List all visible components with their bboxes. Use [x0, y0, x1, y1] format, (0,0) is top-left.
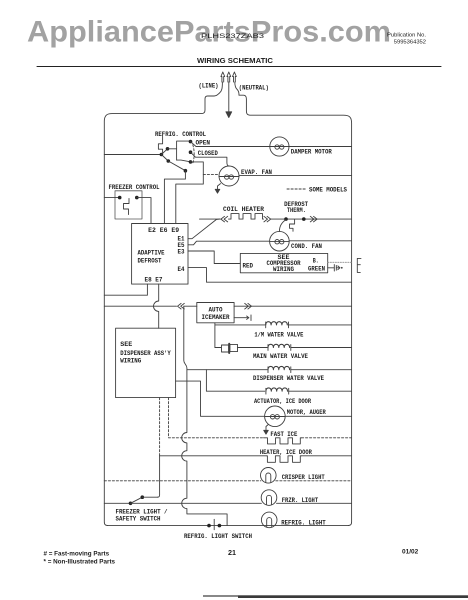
wire evap fan to right border	[239, 175, 352, 177]
svg-text:DISPENSER WATER VALVE: DISPENSER WATER VALVE	[253, 375, 324, 382]
svg-text:REFRIG. LIGHT: REFRIG. LIGHT	[281, 519, 326, 526]
wire dispenser valve row	[187, 369, 267, 371]
defrost thermostat	[284, 217, 305, 231]
wire E3 to compressor box	[188, 251, 240, 264]
refrig light bulb	[261, 512, 277, 528]
svg-text:GREEN: GREEN	[308, 265, 325, 272]
heater element COIL HEATER	[229, 214, 264, 220]
connector chevron right	[264, 216, 271, 222]
svg-text:EVAP. FAN: EVAP. FAN	[241, 169, 272, 176]
main water valve coil L2	[268, 344, 291, 350]
wire chevron to icemaker box	[184, 305, 197, 307]
svg-text:WIRING SCHEMATIC: WIRING SCHEMATIC	[197, 56, 274, 65]
damper motor M1	[270, 137, 289, 156]
svg-text:* = Non-Illustrated Parts: * = Non-Illustrated Parts	[44, 559, 116, 566]
node contact dot3	[189, 160, 193, 164]
dashed wiper arc	[193, 145, 194, 163]
node lower contact	[167, 159, 171, 163]
wire auger to border	[285, 415, 351, 417]
svg-text:REFRIG. CONTROL: REFRIG. CONTROL	[155, 131, 206, 138]
wire E4 to neutral rail	[188, 268, 352, 283]
plug prong ground	[227, 72, 231, 82]
dashed fast ice to border	[302, 437, 352, 439]
svg-text:ACTUATOR, ICE DOOR: ACTUATOR, ICE DOOR	[254, 398, 311, 405]
node freezer control right	[135, 196, 139, 200]
svg-text:CLOSED: CLOSED	[198, 150, 218, 157]
wire E1 to coil heater row	[188, 219, 220, 239]
connector chevron left	[221, 216, 228, 222]
wire heater to border	[302, 455, 352, 457]
ground wire center with arrow	[228, 82, 230, 112]
dashed drop to ice door heater	[159, 398, 161, 456]
dispenser water valve coil L3	[268, 366, 291, 372]
switch arm freezer light	[131, 497, 143, 503]
plug prong LINE	[221, 72, 225, 82]
svg-text:HEATER, ICE DOOR: HEATER, ICE DOOR	[260, 449, 312, 456]
wire E8 to left border	[104, 284, 147, 295]
svg-text:RED: RED	[243, 263, 254, 270]
refrig control pole rail	[177, 141, 189, 160]
node refrig control common	[160, 153, 164, 157]
wire rail bottom to dot3	[177, 160, 189, 162]
wire main valve to border	[291, 347, 352, 349]
wire border to freezer control	[104, 197, 118, 199]
refrig light switch on bottom border	[207, 519, 221, 529]
node freezer light switch left	[129, 502, 133, 506]
wire icemaker to right border	[234, 305, 352, 307]
svg-text:MOTOR, AUGER: MOTOR, AUGER	[287, 409, 326, 416]
wire E5 to cond fan	[188, 241, 270, 245]
node freezer light switch right	[141, 495, 145, 499]
wire OPEN to damper motor	[191, 142, 270, 147]
svg-text:SOME MODELS: SOME MODELS	[309, 187, 347, 194]
svg-text:AppliancePartsPros.com: AppliancePartsPros.com	[27, 16, 391, 49]
1/M water valve coil L1	[266, 322, 289, 328]
wire dot3 to evap branch vertical	[176, 162, 204, 224]
wire auger feed from dispenser box	[176, 381, 265, 416]
inline connector pair	[222, 344, 238, 353]
svg-text:# = Fast-moving Parts: # = Fast-moving Parts	[44, 551, 110, 558]
bottom scan smudge	[203, 595, 468, 598]
wire CLOSED to evap fan	[191, 152, 230, 166]
header publication number	[387, 33, 426, 46]
frzr light bulb	[261, 490, 277, 506]
svg-text:E3: E3	[178, 248, 185, 255]
svg-text:FAST ICE: FAST ICE	[270, 431, 297, 438]
wire frzr bulb to border	[277, 502, 352, 504]
connector chevron icemaker left	[178, 303, 185, 309]
node upper pole contact	[166, 147, 170, 151]
svg-text:(LINE): (LINE)	[199, 83, 219, 90]
wire main valve row	[215, 347, 221, 349]
svg-text:COND. FAN: COND. FAN	[291, 243, 322, 250]
wire damper motor to right border	[289, 146, 352, 148]
node freezer control left	[118, 196, 122, 200]
svg-text:ADAPTIVE: ADAPTIVE	[138, 250, 165, 257]
fast ice element	[264, 438, 302, 444]
wire heater row	[160, 455, 267, 457]
wire dispenser valve to border	[291, 369, 352, 371]
svg-text:5995364352: 5995364352	[394, 40, 426, 46]
adaptive defrost box U1	[132, 224, 188, 285]
wire line prong to case bump left	[214, 82, 222, 96]
wire frzr row border to switch	[104, 502, 129, 504]
wire bus B down from icemaker row	[182, 306, 227, 525]
wire GREEN to border connector	[328, 265, 343, 271]
wire cond fan to heater row	[279, 220, 286, 232]
wire icemaker bottom bus	[214, 323, 216, 348]
svg-text:WIRING: WIRING	[120, 358, 141, 365]
actuator ice door coil L4	[266, 388, 289, 394]
svg-text:(NEUTRAL): (NEUTRAL)	[239, 85, 269, 92]
label FREEZER LIGHT / SAFETY SWITCH	[116, 509, 168, 523]
svg-text:E2 E6 E9: E2 E6 E9	[148, 227, 179, 234]
svg-text:B.: B.	[313, 257, 319, 264]
crisper light bulb	[261, 468, 277, 484]
node dot4	[184, 169, 188, 173]
dashed crisper row right	[276, 480, 352, 482]
svg-text:AUTO: AUTO	[209, 307, 223, 314]
footer legend	[44, 551, 116, 566]
label DEFROST THERM.	[284, 201, 308, 214]
svg-text:ICEMAKER: ICEMAKER	[202, 314, 230, 321]
svg-text:FREEZER CONTROL: FREEZER CONTROL	[109, 184, 160, 191]
svg-text:DAMPER MOTOR: DAMPER MOTOR	[291, 149, 332, 156]
svg-text:1/M WATER VALVE: 1/M WATER VALVE	[254, 331, 303, 338]
wire frzr row to bulb	[131, 502, 262, 504]
svg-text:DEFROST: DEFROST	[138, 258, 162, 265]
compressor box	[240, 253, 327, 272]
wire 1/M valve to border	[289, 324, 352, 326]
enclosure border with cord bump	[104, 95, 351, 525]
see dispenser assy wiring box	[116, 328, 176, 397]
svg-text:SEE: SEE	[120, 341, 132, 348]
wire neutral prong to case bump right	[235, 82, 239, 95]
node CLOSED contact	[189, 150, 193, 154]
svg-text:Publication No.: Publication No.	[387, 33, 426, 39]
svg-text:PLHS237ZAB3: PLHS237ZAB3	[201, 33, 264, 40]
wire freezer control to E2	[137, 198, 151, 224]
switch arm to upper pole	[161, 149, 167, 155]
auger motor	[265, 406, 286, 427]
svg-text:E8 E7: E8 E7	[145, 277, 163, 284]
dashed drop to fast ice	[169, 398, 264, 438]
svg-text:FRZR. LIGHT: FRZR. LIGHT	[282, 497, 319, 504]
svg-text:MAIN WATER VALVE: MAIN WATER VALVE	[253, 353, 308, 360]
wire E7 bus down to dispenser box	[153, 284, 158, 328]
node OPEN contact	[189, 140, 193, 144]
wire heater junction down to freezer light switch	[158, 456, 160, 497]
svg-text:COIL HEATER: COIL HEATER	[223, 206, 264, 213]
svg-text:CRISPER LIGHT: CRISPER LIGHT	[282, 474, 325, 481]
plug prong NEUTRAL	[233, 72, 237, 82]
wire dot4 to E6	[164, 171, 185, 224]
svg-text:21: 21	[228, 548, 236, 557]
wire left border to refrig control	[104, 154, 160, 156]
svg-text:FREEZER LIGHT /: FREEZER LIGHT /	[116, 509, 168, 516]
connector chevron icemaker right	[245, 303, 252, 309]
wire actuator branch	[206, 370, 264, 392]
evap fan motor	[219, 166, 239, 186]
cond fan motor	[270, 231, 290, 251]
wire icemaker row from border	[104, 305, 176, 307]
ground at evap fan	[215, 184, 220, 194]
wire actuator to border	[289, 390, 352, 392]
wire upper pole to rail	[168, 148, 177, 150]
svg-text:WIRING: WIRING	[273, 266, 294, 273]
freezer control box	[115, 191, 142, 219]
wire cond fan to right border	[289, 240, 351, 242]
wire 1/M valve row	[215, 324, 265, 326]
dashed crisper row left	[104, 480, 261, 482]
svg-text:E4: E4	[178, 266, 185, 273]
svg-text:01/02: 01/02	[402, 549, 419, 556]
header rule	[37, 66, 441, 68]
wire switch to bus	[142, 496, 157, 498]
wire connector to main valve coil	[237, 347, 267, 349]
auto icemaker box	[197, 303, 234, 323]
coil heater row with connectors	[200, 214, 352, 222]
switch arm dot2 to dot4	[168, 161, 185, 171]
wire B to border faint	[328, 261, 352, 263]
svg-text:OPEN: OPEN	[196, 140, 211, 147]
svg-text:THERM.: THERM.	[287, 207, 306, 214]
icemaker fill arrow stub	[234, 315, 251, 321]
switch arm to lower contact	[161, 155, 168, 162]
svg-text:SAFETY SWITCH: SAFETY SWITCH	[116, 516, 161, 523]
legend dashes SOME MODELS	[287, 188, 306, 190]
chassis bracket connector	[357, 258, 361, 272]
svg-text:REFRIG. LIGHT SWITCH: REFRIG. LIGHT SWITCH	[184, 533, 252, 540]
dashed wire to evap fan	[203, 173, 219, 175]
freezer control bimetal staircase	[124, 199, 130, 215]
svg-text:DISPENSER ASS'Y: DISPENSER ASS'Y	[120, 350, 171, 357]
heater element HEATER, ICE DOOR	[267, 456, 302, 463]
refrig control sensor staircase	[158, 136, 162, 153]
connector chevron after therm	[310, 216, 317, 222]
ground at auger motor	[264, 425, 269, 435]
